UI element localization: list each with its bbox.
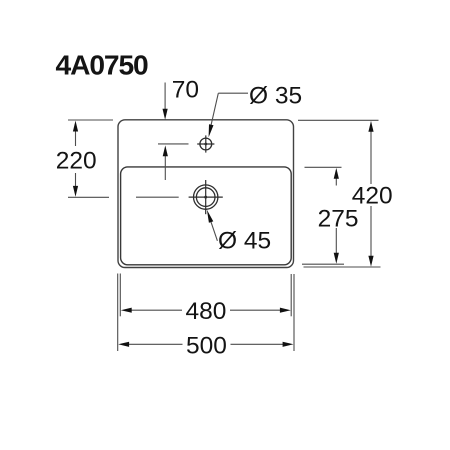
dim 275 upper segment xyxy=(335,178,337,186)
dim 275 top extension xyxy=(305,166,342,168)
dim 420 top extension xyxy=(298,119,379,121)
svg-text:70: 70 xyxy=(172,76,199,103)
dim 420 down arrow xyxy=(368,256,373,267)
dim 275 up arrow xyxy=(334,168,339,179)
drain crosshair horizontal xyxy=(189,196,223,198)
dim 480 right arrow xyxy=(280,308,291,313)
tap hole circle xyxy=(200,138,212,150)
dim 480 left arrow xyxy=(121,308,132,313)
dim 420 bottom extension xyxy=(304,266,381,268)
svg-text:500: 500 xyxy=(186,333,227,360)
dim 500 left arrow xyxy=(118,342,129,347)
drain center dot xyxy=(204,196,207,199)
dim 70 up arrow xyxy=(163,145,168,156)
drain hole inner circle xyxy=(196,188,215,207)
dim 220 up arrow xyxy=(73,121,78,132)
svg-text:275: 275 xyxy=(318,206,359,233)
dim 220 upper segment xyxy=(75,131,77,147)
dim 420 up arrow xyxy=(368,121,373,132)
D35 leader diagonal xyxy=(210,93,219,131)
tap hole crosshair vertical xyxy=(205,135,207,152)
tap centerline extension xyxy=(158,143,189,145)
svg-text:480: 480 xyxy=(186,298,227,325)
dim 480 right segment xyxy=(230,309,281,311)
dim 70 down arrow xyxy=(163,109,168,120)
dim 500 right segment xyxy=(231,343,284,345)
dim 275 down arrow xyxy=(334,253,339,264)
dim 275 bottom extension xyxy=(302,263,344,265)
D35 leader arrow xyxy=(209,124,214,137)
tap hole crosshair horizontal xyxy=(197,143,214,145)
D35 leader horizontal xyxy=(218,92,248,94)
dim 220 down arrow xyxy=(73,186,78,197)
D45 leader diagonal xyxy=(210,218,218,240)
dim 500 right arrow xyxy=(283,342,294,347)
svg-text:4A0750: 4A0750 xyxy=(56,48,149,80)
dim 220 top extension xyxy=(68,119,113,121)
dim 420 lower segment xyxy=(370,206,372,257)
drain hole outer circle xyxy=(194,185,218,209)
basin inner bowl outline xyxy=(121,167,292,265)
D45 leader arrow xyxy=(207,210,213,223)
right inner extension vertical xyxy=(290,274,292,316)
left inner extension vertical xyxy=(119,274,121,317)
dim 70 upper line xyxy=(164,83,166,110)
svg-text:Ø 35: Ø 35 xyxy=(249,83,302,110)
svg-text:Ø 45: Ø 45 xyxy=(218,227,271,254)
right outer extension vertical xyxy=(293,274,295,351)
svg-text:220: 220 xyxy=(56,147,97,174)
dim 500 left segment xyxy=(129,343,183,345)
dim 70 lower line xyxy=(164,156,166,181)
drain crosshair vertical xyxy=(205,180,207,214)
dim 420 upper segment xyxy=(370,131,372,184)
dim 480 left segment xyxy=(131,309,182,311)
basin outer outline xyxy=(118,120,294,268)
dim 220 bottom extension xyxy=(68,196,109,198)
tap hole center dot xyxy=(204,143,207,146)
drain centerline dash xyxy=(136,196,179,198)
left outer extension vertical xyxy=(117,274,119,352)
dim 220 lower segment xyxy=(75,173,77,187)
dim 275 lower segment xyxy=(335,228,337,254)
